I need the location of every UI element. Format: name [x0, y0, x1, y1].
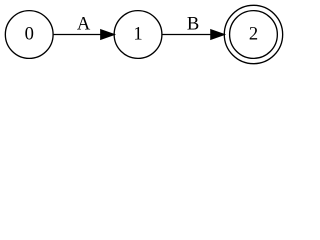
svg-text:1: 1 — [133, 23, 142, 44]
svg-text:0: 0 — [25, 23, 34, 44]
svg-text:B: B — [187, 13, 199, 34]
svg-text:2: 2 — [249, 23, 258, 44]
svg-text:A: A — [77, 13, 91, 34]
